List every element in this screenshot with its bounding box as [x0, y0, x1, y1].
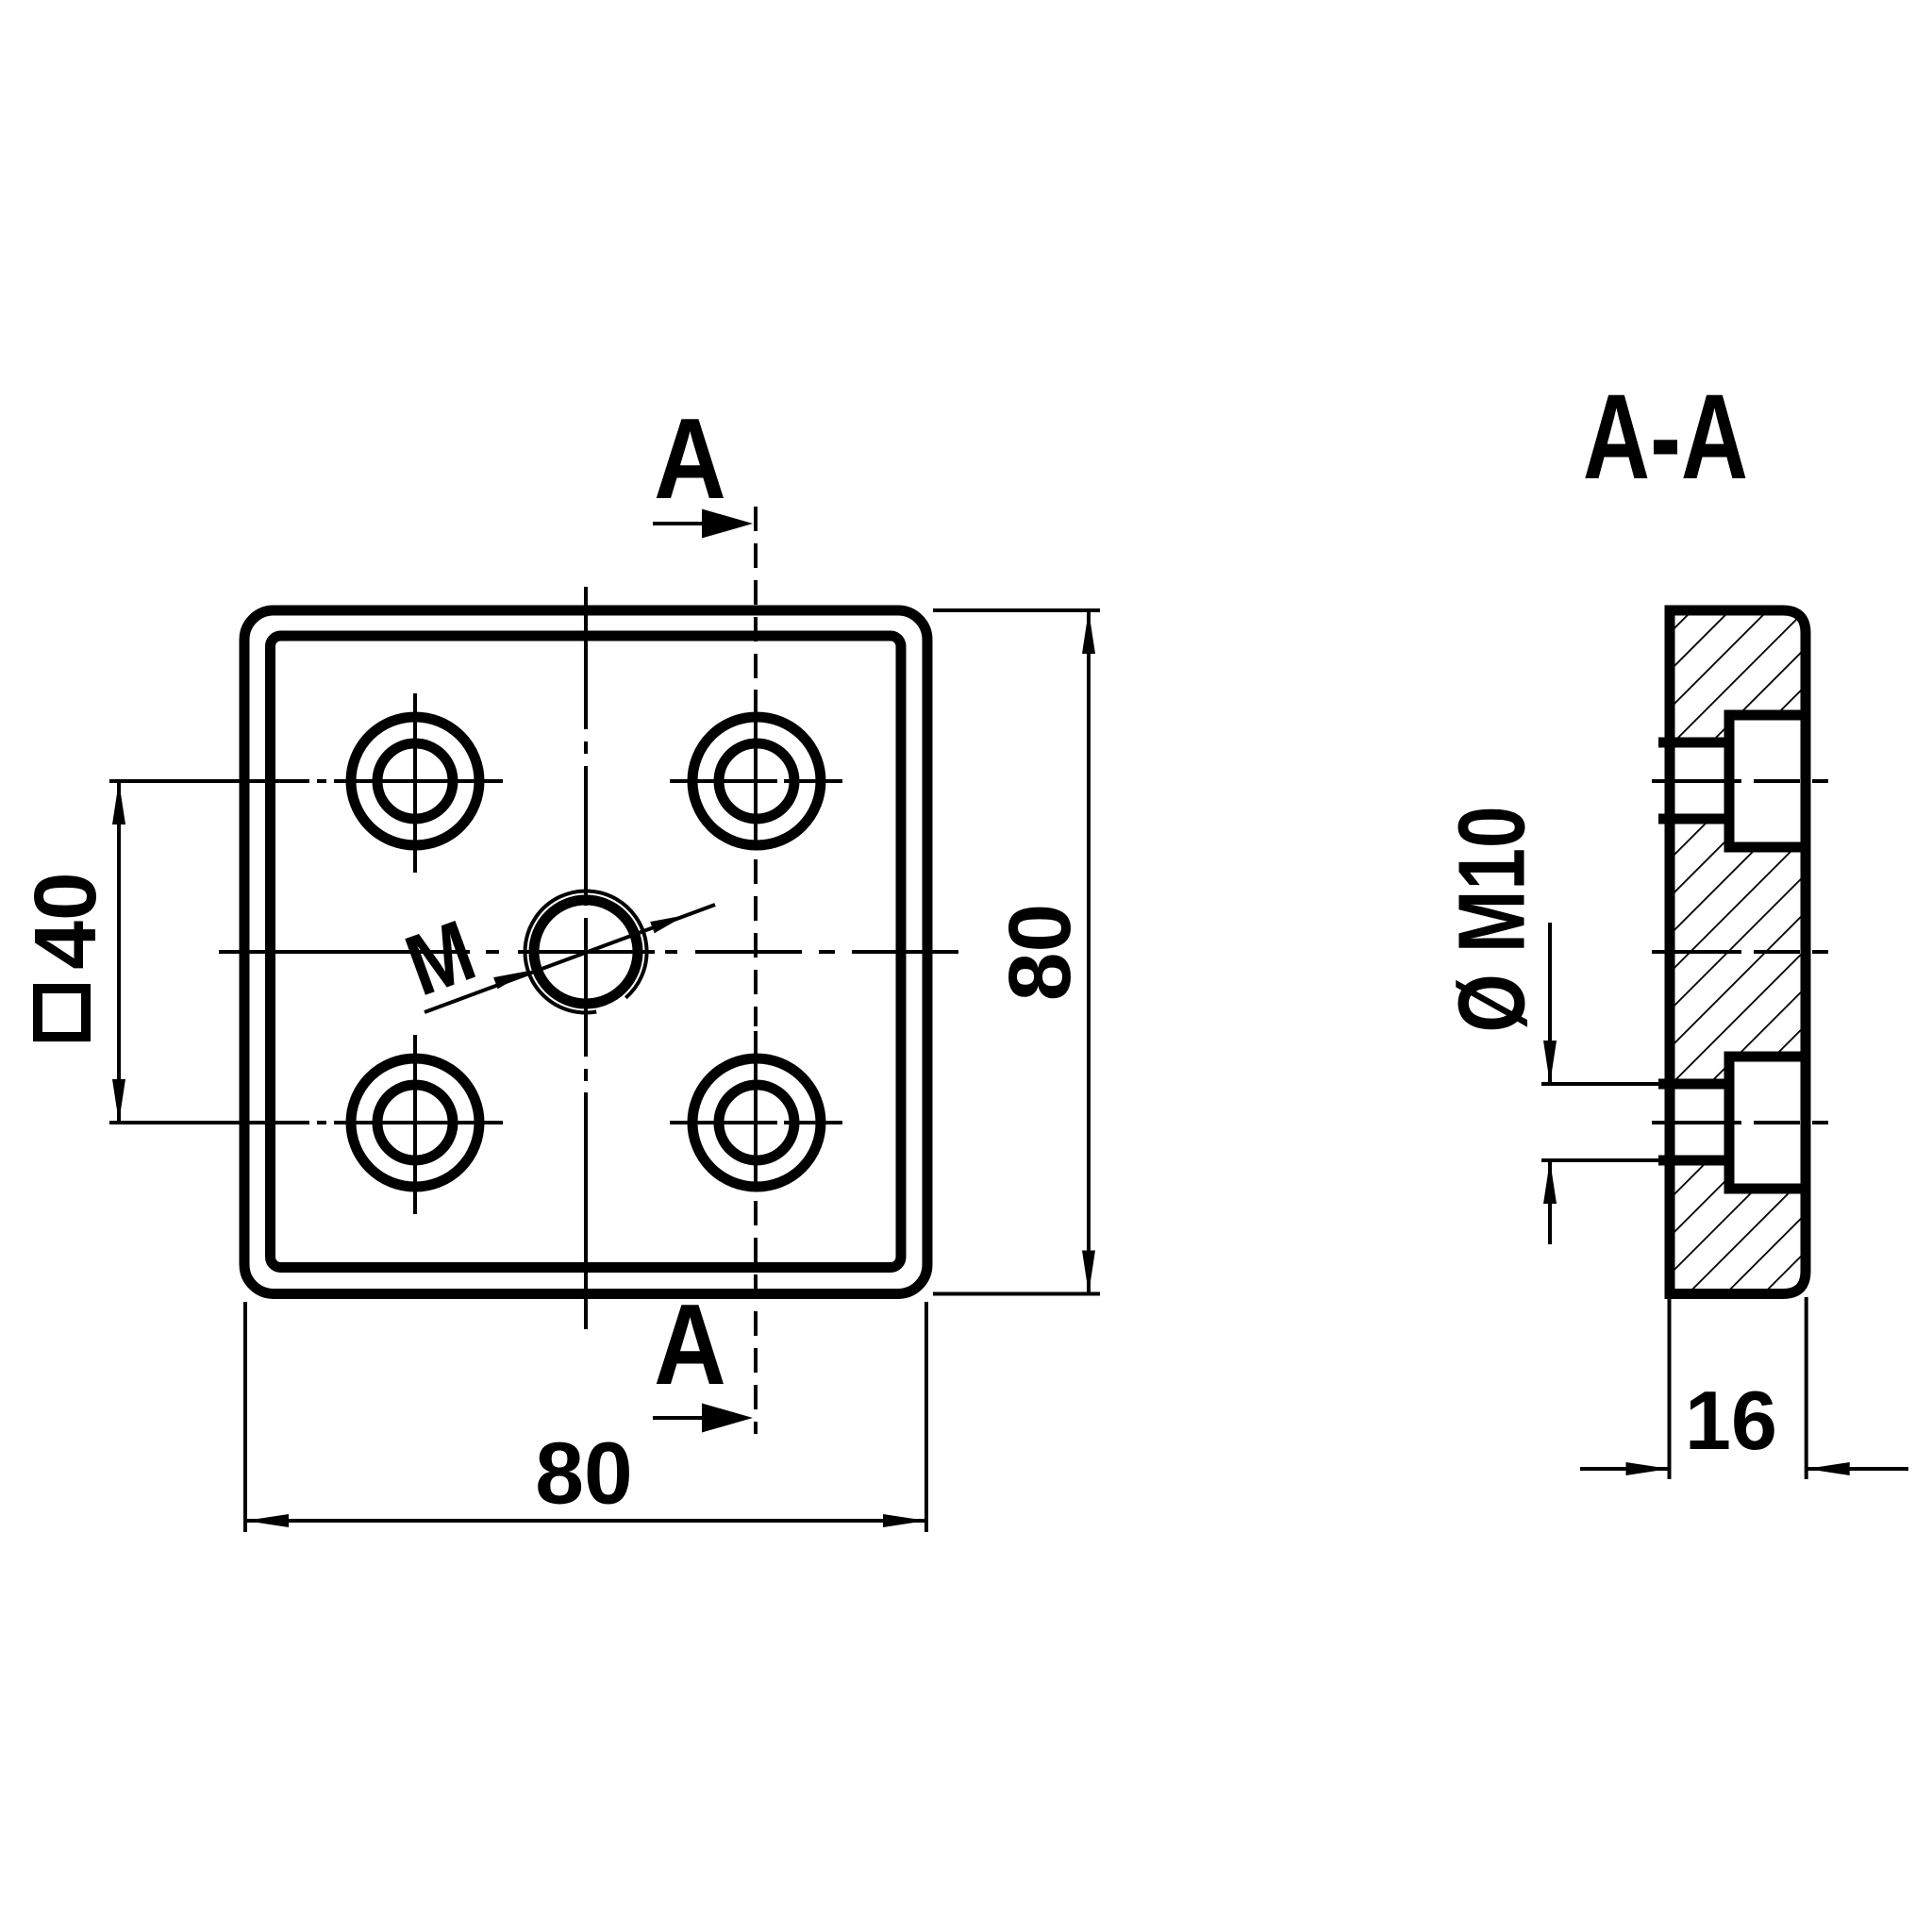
- thread leader arrowhead lower-left: [493, 971, 529, 989]
- hole top-right counterbore circle: [692, 717, 821, 845]
- hole top-right crosshair: [670, 779, 842, 783]
- section hatching: [1641, 585, 1840, 1321]
- dimension 80 right: arrow up: [1082, 610, 1095, 654]
- svg-text:A: A: [654, 1280, 726, 1409]
- hole bottom-right crosshair: [670, 1121, 842, 1124]
- dimension square-40 dimension line (left): [117, 781, 121, 1123]
- dimension square symbol: [38, 989, 86, 1037]
- dimension M10: dimension line below: [1548, 1160, 1552, 1244]
- dimension 16: dimension line right: [1807, 1467, 1908, 1471]
- dimension 80 bottom: arrow left: [245, 1514, 289, 1527]
- dimension 16: dimension line left: [1580, 1467, 1670, 1471]
- section cut line A-A (vertical dashed through right holes): [754, 507, 758, 1434]
- thread leader line: [425, 905, 715, 1012]
- svg-text:Ø M10: Ø M10: [1440, 806, 1545, 1032]
- svg-text:A-A: A-A: [1583, 371, 1748, 505]
- section lower notch counterbore rectangle: [1729, 1057, 1806, 1189]
- dimension M10: arrow up: [1543, 1160, 1557, 1204]
- dimension M10: extension line bottom: [1541, 1158, 1663, 1162]
- hole top-left crosshair: [109, 693, 503, 873]
- hole top-right bore circle: [719, 743, 794, 819]
- vertical centerline of plate (dash-dot): [584, 587, 588, 1329]
- svg-text:80: 80: [991, 904, 1089, 1001]
- svg-text:16: 16: [1685, 1374, 1777, 1467]
- hole bottom-right counterbore circle: [692, 1058, 821, 1187]
- hole bottom-left counterbore circle: [351, 1058, 479, 1187]
- dimension 80 right: extension line top: [933, 608, 1100, 612]
- hole top-left bore circle: [377, 743, 453, 819]
- hole top-left counterbore circle: [351, 717, 479, 845]
- svg-text:M: M: [394, 903, 487, 1015]
- dimension 80 right: arrow down: [1082, 1251, 1095, 1294]
- thread leader arrowhead upper-right: [650, 915, 686, 933]
- section lower notch bore rectangle: [1670, 1084, 1729, 1160]
- section upper notch bore rectangle: [1670, 742, 1729, 819]
- dimension 80 bottom: dimension line: [245, 1519, 926, 1523]
- dimension square-40 arrow up: [112, 781, 125, 824]
- section body outline: [1670, 610, 1806, 1294]
- svg-text:80: 80: [535, 1424, 632, 1523]
- svg-text:A: A: [654, 394, 726, 524]
- section arrow top: [653, 522, 726, 525]
- section centerline upper hole row: [1652, 779, 1828, 783]
- hole bottom-left crosshair: [109, 1035, 503, 1214]
- dimension 80 right: dimension line: [1087, 610, 1091, 1294]
- dimension 80 bottom: extension line left: [243, 1302, 247, 1532]
- dimension 16: extension line left: [1668, 1297, 1672, 1479]
- dimension M10: dimension line above: [1548, 923, 1552, 1084]
- dimension 16: arrow pointing left: [1807, 1462, 1850, 1475]
- dimension 80 right: extension line bottom: [933, 1292, 1100, 1296]
- section arrow bottom: [653, 1416, 726, 1420]
- section centerline middle row: [1652, 950, 1828, 954]
- central thread crest arc (thin, open): [525, 891, 647, 1012]
- plate inner face outline: [271, 636, 902, 1268]
- plate outer outline (80x80 rounded square): [244, 610, 927, 1294]
- dimension M10: extension line top: [1541, 1082, 1663, 1086]
- section upper notch counterbore rectangle: [1729, 715, 1806, 847]
- dimension 80 bottom: arrow right: [883, 1514, 926, 1527]
- hole bottom-left bore circle: [377, 1085, 453, 1160]
- dimension 16: extension line right: [1805, 1297, 1808, 1479]
- dimension 16: arrow pointing right: [1626, 1462, 1670, 1475]
- central thread hole core circle: [534, 900, 638, 1004]
- svg-text:40: 40: [16, 872, 114, 969]
- dimension square-40 arrow down: [112, 1079, 125, 1123]
- dimension 80 bottom: extension line right: [924, 1302, 928, 1532]
- section notch edge overshoot stubs at left wall: [1658, 742, 1675, 1160]
- dimension M10: arrow down: [1543, 1041, 1557, 1084]
- hole bottom-right bore circle: [719, 1085, 794, 1160]
- section centerline lower hole row: [1652, 1121, 1828, 1124]
- horizontal centerline of plate (dash-dot): [219, 950, 958, 954]
